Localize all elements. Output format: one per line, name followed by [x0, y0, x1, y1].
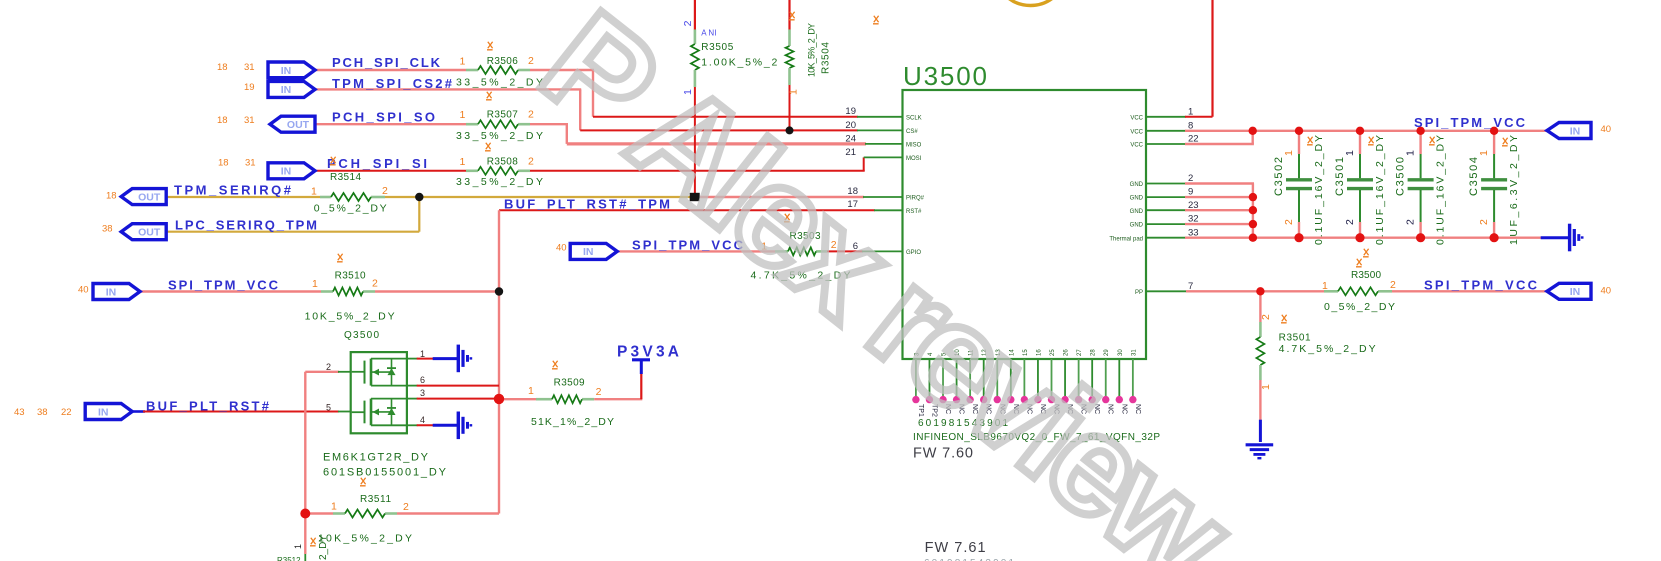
svg-text:IN: IN	[98, 406, 109, 418]
svg-text:2: 2	[326, 362, 331, 372]
svg-text:31: 31	[245, 158, 256, 169]
svg-text:10K_5%_2_DY: 10K_5%_2_DY	[807, 23, 817, 77]
svg-text:R3510: R3510	[335, 271, 366, 282]
svg-text:8: 8	[1188, 120, 1193, 131]
svg-text:29: 29	[1104, 349, 1110, 356]
svg-text:2: 2	[372, 278, 378, 290]
svg-text:31: 31	[244, 115, 255, 126]
svg-text:4: 4	[420, 415, 425, 425]
svg-text:1: 1	[311, 186, 317, 198]
svg-text:30: 30	[1118, 349, 1124, 356]
svg-text:40: 40	[1601, 124, 1612, 135]
svg-text:FW 7.61: FW 7.61	[925, 540, 986, 556]
svg-text:18: 18	[218, 158, 229, 169]
svg-text:R3500: R3500	[1351, 270, 1381, 281]
svg-text:2: 2	[1188, 173, 1193, 184]
svg-text:1: 1	[312, 278, 318, 290]
svg-text:U3500: U3500	[903, 61, 987, 91]
svg-text:R3508: R3508	[487, 157, 518, 168]
svg-text:EM6K1GT2R_DY: EM6K1GT2R_DY	[323, 452, 429, 464]
svg-text:SCLK: SCLK	[906, 115, 922, 121]
svg-text:CS#: CS#	[906, 129, 918, 135]
svg-text:43: 43	[14, 407, 25, 418]
svg-text:IN: IN	[583, 246, 594, 258]
svg-text:2: 2	[1478, 219, 1490, 225]
svg-text:1: 1	[460, 56, 466, 68]
svg-text:601SB0155001_DY: 601SB0155001_DY	[323, 467, 447, 479]
svg-text:LPC_SERIRQ_TPM: LPC_SERIRQ_TPM	[175, 218, 317, 233]
svg-text:TPM_SERIRQ#: TPM_SERIRQ#	[174, 183, 292, 198]
svg-text:C3500: C3500	[1395, 157, 1407, 196]
svg-text:38: 38	[37, 407, 48, 418]
svg-text:21: 21	[845, 147, 856, 158]
svg-text:R3505: R3505	[701, 42, 733, 53]
svg-text:0.1UF_16V_2_DY: 0.1UF_16V_2_DY	[1374, 135, 1386, 245]
svg-text:2: 2	[1405, 219, 1417, 225]
svg-text:IN: IN	[1570, 286, 1581, 298]
svg-text:0_5%_2_DY: 0_5%_2_DY	[1324, 301, 1395, 313]
svg-text:GND: GND	[1130, 223, 1144, 229]
svg-text:RST#: RST#	[906, 209, 922, 215]
svg-text:Q3500: Q3500	[344, 330, 379, 341]
svg-text:0.1UF_16V_2_DY: 0.1UF_16V_2_DY	[1313, 135, 1325, 245]
svg-text:OUT: OUT	[287, 119, 310, 131]
svg-text:PIRQ#: PIRQ#	[906, 196, 925, 202]
svg-text:18: 18	[217, 115, 228, 126]
svg-text:1: 1	[1405, 150, 1417, 156]
svg-text:18: 18	[217, 62, 228, 73]
svg-text:2: 2	[382, 185, 388, 197]
svg-text:23: 23	[1188, 200, 1199, 211]
svg-text:1: 1	[1322, 280, 1328, 292]
svg-text:9: 9	[1188, 187, 1193, 198]
svg-text:R3506: R3506	[487, 56, 518, 67]
svg-text:20: 20	[845, 120, 856, 131]
svg-text:19: 19	[845, 106, 856, 117]
svg-text:VCC: VCC	[1130, 129, 1143, 135]
svg-text:22: 22	[61, 407, 72, 418]
svg-text:3: 3	[420, 388, 425, 398]
svg-text:28: 28	[1091, 349, 1097, 356]
svg-text:1: 1	[460, 109, 466, 121]
svg-text:7: 7	[1188, 281, 1193, 292]
svg-text:C3502: C3502	[1273, 157, 1285, 196]
svg-text:10K_5%_2_DY: 10K_5%_2_DY	[305, 311, 395, 323]
svg-text:38: 38	[102, 224, 113, 235]
svg-text:2: 2	[1390, 279, 1396, 291]
svg-text:1: 1	[1344, 150, 1356, 156]
svg-text:2: 2	[403, 501, 409, 513]
svg-text:19: 19	[244, 82, 255, 93]
svg-text:40: 40	[78, 285, 89, 296]
svg-text:18: 18	[106, 191, 117, 202]
svg-text:51K_1%_2_DY: 51K_1%_2_DY	[531, 416, 614, 428]
svg-text:1: 1	[1283, 150, 1295, 156]
svg-text:OUT: OUT	[138, 191, 161, 203]
svg-text:40: 40	[556, 243, 567, 254]
svg-text:C3504: C3504	[1468, 157, 1480, 196]
svg-text:31: 31	[244, 62, 255, 73]
svg-text:VCC: VCC	[1130, 143, 1143, 149]
svg-text:R3514: R3514	[330, 172, 361, 183]
svg-text:VCC: VCC	[1130, 115, 1143, 121]
svg-text:GND: GND	[1130, 182, 1144, 188]
svg-text:IN: IN	[281, 84, 292, 96]
svg-text:0.1UF_16V_2_DY: 0.1UF_16V_2_DY	[1435, 135, 1447, 245]
svg-text:MISO: MISO	[906, 143, 922, 149]
svg-text:5: 5	[326, 402, 331, 412]
svg-text:4.7K_5%_2_DY: 4.7K_5%_2_DY	[1279, 343, 1376, 355]
svg-text:24: 24	[845, 133, 856, 144]
svg-text:PCH_SPI_SI: PCH_SPI_SI	[327, 156, 427, 171]
svg-text:40: 40	[1601, 286, 1612, 297]
svg-text:1: 1	[1188, 106, 1193, 117]
svg-text:GND: GND	[1130, 209, 1144, 215]
svg-text:32: 32	[1188, 214, 1199, 225]
svg-text:2: 2	[1344, 219, 1356, 225]
svg-text:P3V3A: P3V3A	[617, 344, 679, 361]
svg-text:IN: IN	[281, 65, 292, 77]
svg-text:33: 33	[1188, 227, 1199, 238]
svg-text:1: 1	[420, 349, 425, 359]
svg-text:A NI: A NI	[701, 29, 716, 38]
svg-text:TPM_SPI_CS2#: TPM_SPI_CS2#	[332, 76, 453, 91]
svg-text:2: 2	[682, 20, 694, 26]
svg-text:1: 1	[1260, 384, 1272, 390]
svg-text:2: 2	[528, 55, 534, 67]
svg-text:2_DY: 2_DY	[318, 535, 329, 560]
svg-text:1: 1	[788, 89, 800, 95]
svg-text:2: 2	[528, 156, 534, 168]
svg-text:2: 2	[1283, 219, 1295, 225]
svg-text:2: 2	[1260, 314, 1272, 320]
svg-text:1: 1	[528, 385, 534, 397]
svg-text:Thermal pad: Thermal pad	[1109, 236, 1143, 242]
svg-text:PP: PP	[1135, 290, 1143, 296]
svg-text:1: 1	[1478, 150, 1490, 156]
svg-text:1: 1	[460, 156, 466, 168]
svg-text:IN: IN	[281, 166, 292, 178]
svg-text:MOSI: MOSI	[906, 156, 922, 162]
svg-text:GND: GND	[1130, 196, 1144, 202]
svg-text:22: 22	[1188, 134, 1199, 145]
svg-text:6: 6	[420, 375, 425, 385]
svg-text:R3512: R3512	[277, 556, 301, 561]
svg-text:OUT: OUT	[138, 227, 161, 239]
svg-text:R3504: R3504	[821, 42, 832, 74]
svg-text:R3509: R3509	[554, 378, 585, 389]
svg-text:C3501: C3501	[1334, 157, 1346, 196]
svg-text:PCH_SPI_SO: PCH_SPI_SO	[332, 110, 435, 125]
svg-text:R3511: R3511	[360, 494, 391, 505]
svg-text:31: 31	[1131, 349, 1137, 356]
svg-text:PCH_SPI_CLK: PCH_SPI_CLK	[332, 55, 441, 70]
svg-text:IN: IN	[106, 286, 117, 298]
svg-text:IN: IN	[1570, 125, 1581, 137]
svg-text:1: 1	[293, 544, 303, 549]
svg-text:0_5%_2_DY: 0_5%_2_DY	[314, 203, 387, 215]
svg-text:R3507: R3507	[487, 110, 518, 121]
svg-text:1: 1	[331, 501, 337, 513]
svg-text:2: 2	[596, 386, 602, 398]
